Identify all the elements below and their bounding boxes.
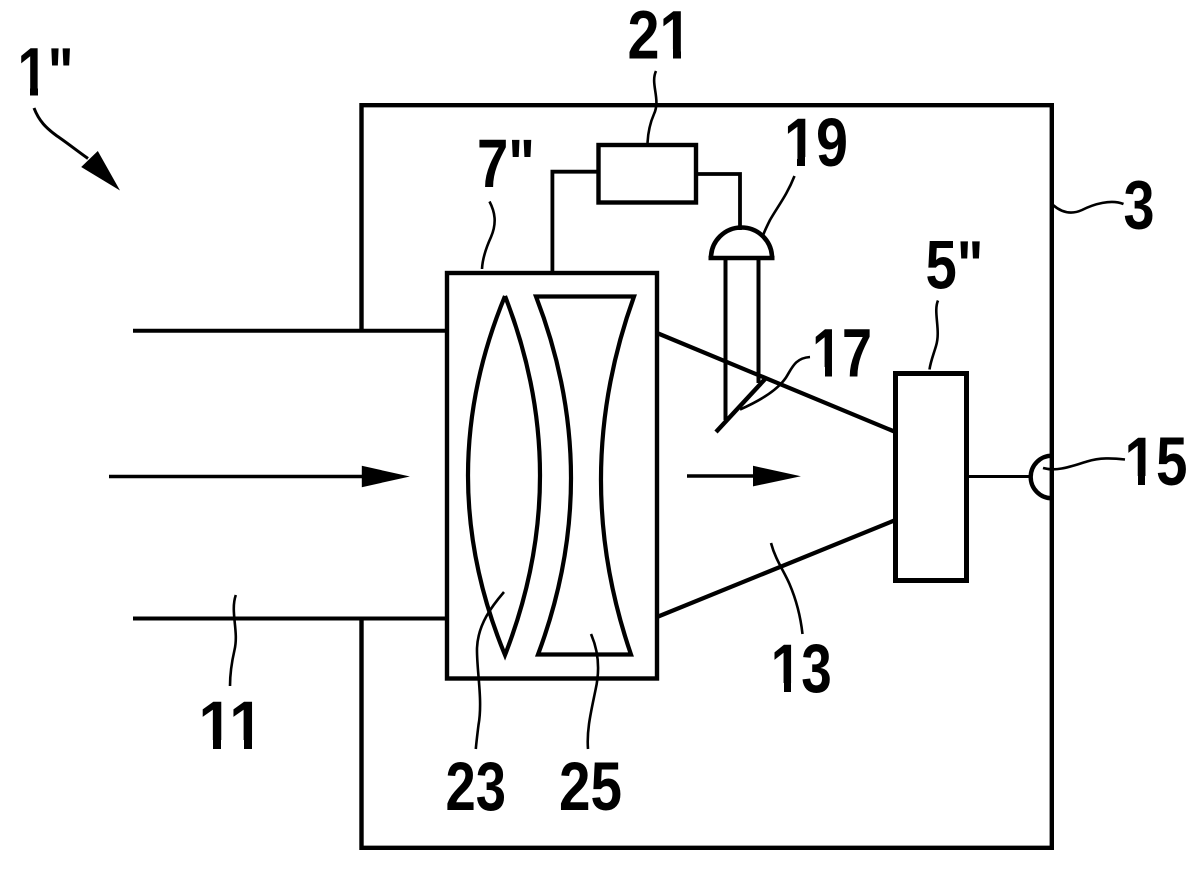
svg-text:25: 25 bbox=[559, 748, 622, 825]
svg-text:7": 7" bbox=[477, 125, 535, 202]
svg-text:13: 13 bbox=[771, 630, 832, 707]
svg-text:11: 11 bbox=[199, 687, 264, 764]
svg-text:5": 5" bbox=[926, 227, 984, 304]
svg-text:17: 17 bbox=[812, 315, 872, 392]
svg-text:21: 21 bbox=[628, 0, 692, 74]
svg-text:23: 23 bbox=[446, 748, 507, 825]
svg-text:3: 3 bbox=[1124, 167, 1155, 244]
svg-text:15: 15 bbox=[1125, 423, 1188, 500]
svg-text:19: 19 bbox=[784, 104, 848, 181]
